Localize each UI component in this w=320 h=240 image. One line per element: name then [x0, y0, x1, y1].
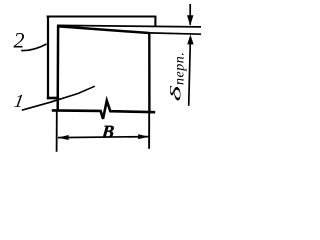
leader line of label 1 [22, 86, 95, 110]
B extension line right (below part) [148, 112, 150, 149]
try square (item 2) right edge [154, 16, 156, 27]
leader line of label 2 [21, 44, 46, 51]
svg-text:перп.: перп. [173, 52, 188, 85]
svg-text:В: В [100, 122, 115, 142]
delta dimension arrowhead pointing down [187, 15, 193, 26]
svg-text:2: 2 [14, 28, 25, 53]
B dimension arrowhead left [58, 135, 69, 140]
B dimension arrowhead right [138, 134, 149, 139]
try square (item 2) left edge [47, 16, 49, 100]
part (item 1) bottom edge with break symbol [52, 101, 155, 119]
delta dimension arrowhead pointing up [187, 35, 193, 45]
svg-text:δ: δ [167, 85, 184, 102]
part (item 1) top edge (tilted) [57, 26, 149, 33]
B extension line left (below part) [56, 112, 58, 152]
try square (item 2) top edge [47, 15, 156, 17]
part (item 1) left edge [56, 26, 59, 112]
try square (item 2) bottom edge of vertical arm [47, 97, 59, 100]
B dimension line [58, 137, 149, 138]
delta dimension line upper segment [189, 4, 191, 25]
lower extension line of delta (from part top-right corner) [149, 33, 201, 34]
delta dimension line lower segment [189, 42, 191, 106]
part (item 1) right edge [148, 32, 150, 112]
try square inner edge / reference line (upper extension line of delta) [57, 25, 201, 27]
